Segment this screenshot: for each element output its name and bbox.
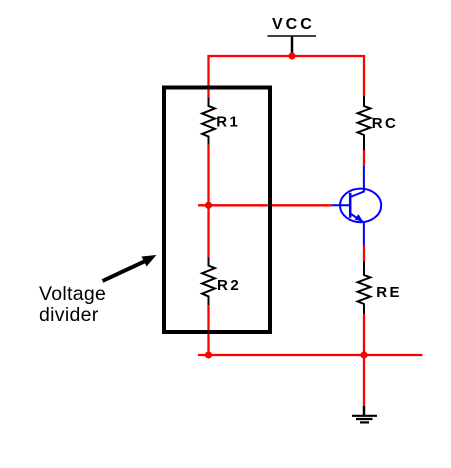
- svg-text:RC: RC: [372, 115, 399, 132]
- power symbol VCC: [268, 36, 317, 56]
- svg-text:divider: divider: [39, 304, 99, 326]
- resistor RC: [358, 96, 371, 150]
- wire emitter to RE top: [363, 246, 365, 261]
- node junction bottom left (R2 to rail): [205, 351, 212, 358]
- arrow annotation pointing to divider box: [103, 255, 157, 281]
- wire RE bottom to rail: [363, 314, 365, 355]
- wire base net horizontal: [198, 204, 332, 206]
- node junction at VCC tap: [288, 52, 295, 59]
- wire RC bottom to collector: [363, 150, 365, 165]
- svg-text:R1: R1: [216, 113, 240, 130]
- wire rail to ground symbol: [363, 355, 365, 406]
- node B junction (base / divider tap): [205, 202, 212, 209]
- svg-text:RE: RE: [376, 284, 402, 301]
- resistor RE: [358, 261, 371, 314]
- node junction bottom right (RE / ground): [360, 351, 367, 358]
- svg-text:VCC: VCC: [272, 16, 315, 33]
- wire R2 bottom to ground rail: [207, 305, 209, 355]
- transistor Q1 NPN: [332, 166, 381, 246]
- ground: [352, 406, 377, 423]
- svg-text:Voltage: Voltage: [39, 283, 106, 305]
- resistor R2: [202, 257, 215, 305]
- svg-text:R2: R2: [217, 277, 241, 294]
- resistor R1: [202, 97, 215, 145]
- wire R1 bottom to node B to R2 top: [207, 145, 209, 257]
- wire bottom ground rail: [198, 354, 423, 356]
- wire top rail VCC net with corners down to R1 and RC: [209, 56, 365, 97]
- voltage divider box: [164, 88, 270, 333]
